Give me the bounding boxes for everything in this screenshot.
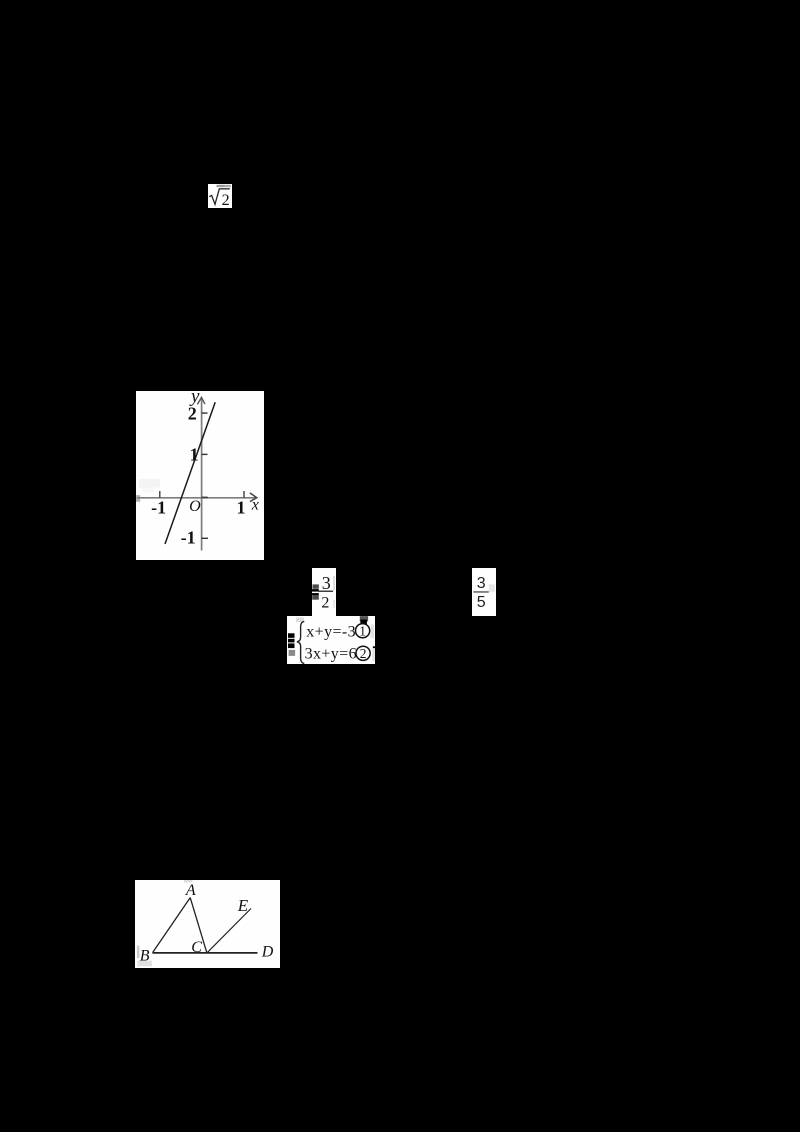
ray C-E [207,909,251,953]
svg-text:x+y=-3: x+y=-3 [306,623,356,640]
svg-text:-1: -1 [181,527,196,547]
svg-text:x: x [251,497,259,514]
triangle [153,898,191,953]
svg-text:O: O [189,498,201,515]
geometry figure image [135,880,280,968]
svg-text:-1: -1 [151,497,166,517]
left edge gray block [136,495,140,502]
svg-text:3: 3 [477,575,486,592]
svg-text:1: 1 [237,497,246,517]
fraction 3/5 image [472,568,496,616]
svg-text:A: A [185,882,196,899]
sqrt(2) formula image [208,184,232,208]
x axis line [137,497,257,499]
faint scan smudge [139,479,160,488]
svg-text:B: B [140,948,150,965]
svg-text:1: 1 [359,623,366,638]
baseline B-D [153,952,258,954]
brace [297,621,304,663]
ticks [202,412,208,414]
svg-text:D: D [261,944,274,961]
svg-text:2: 2 [222,192,230,208]
y axis line [201,399,203,551]
graph of line image [136,391,264,560]
fraction 3/2 image [312,568,336,616]
svg-text:C: C [191,939,202,956]
svg-text:2: 2 [188,404,197,424]
svg-text:3: 3 [322,573,331,593]
system of equations image [287,616,375,664]
svg-text:2: 2 [321,594,329,611]
svg-text:5: 5 [477,594,486,611]
svg-text:1: 1 [190,445,199,465]
svg-text:2: 2 [360,645,367,660]
function line [165,402,215,544]
svg-text:3x+y=6: 3x+y=6 [305,645,357,662]
svg-text:E: E [237,896,249,915]
